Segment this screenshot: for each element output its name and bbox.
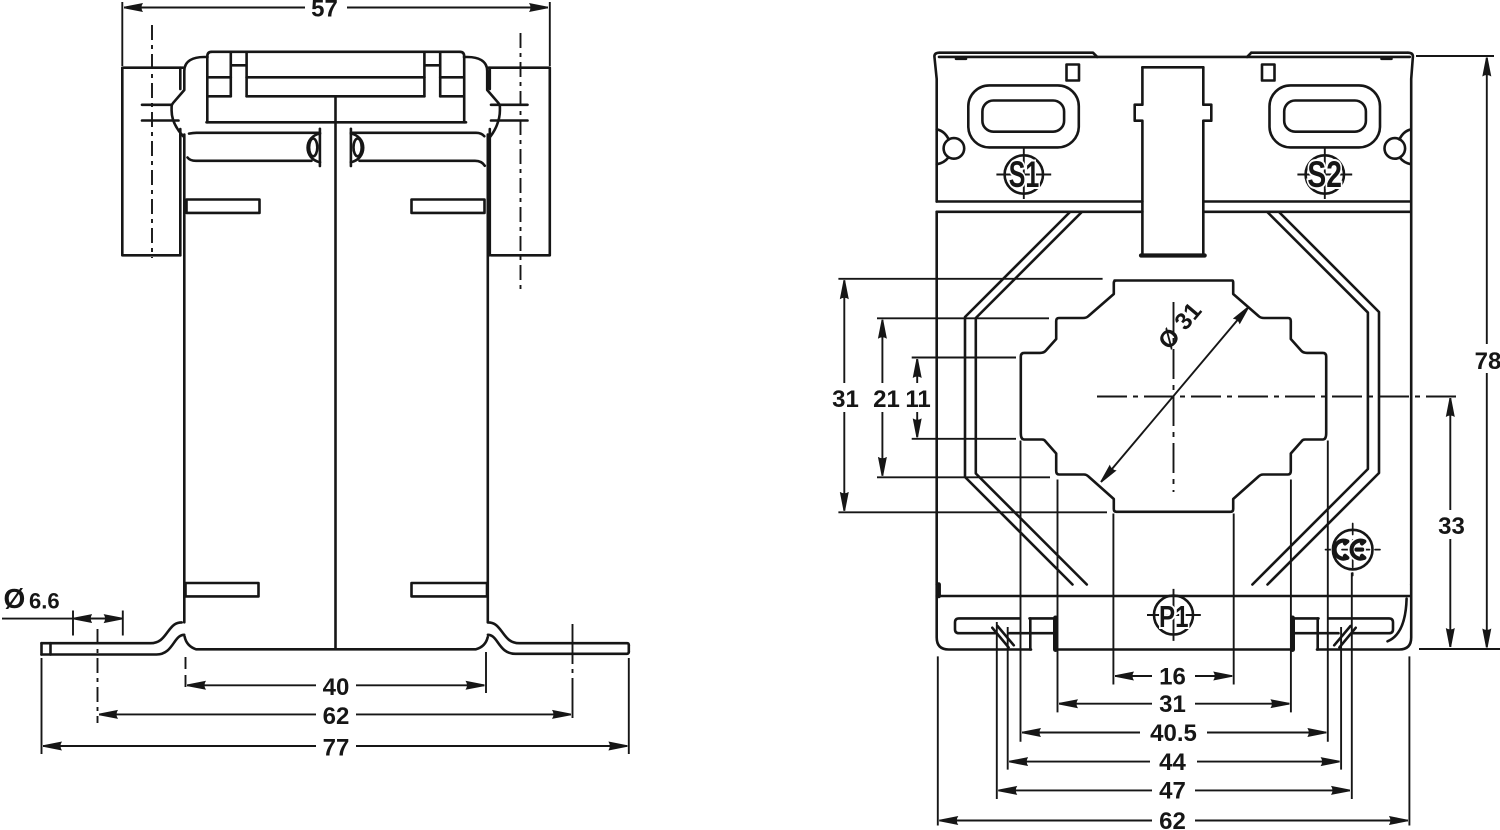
svg-text:78: 78 bbox=[1475, 348, 1500, 375]
svg-text:P1: P1 bbox=[1159, 599, 1189, 634]
svg-text:33: 33 bbox=[1438, 513, 1465, 540]
svg-text:62: 62 bbox=[323, 703, 350, 730]
svg-text:31: 31 bbox=[1159, 691, 1186, 718]
svg-text:Ø: Ø bbox=[4, 583, 26, 614]
svg-text:44: 44 bbox=[1159, 749, 1186, 776]
svg-text:16: 16 bbox=[1159, 664, 1186, 691]
svg-text:40.5: 40.5 bbox=[1150, 720, 1197, 747]
svg-text:S2: S2 bbox=[1307, 154, 1342, 195]
svg-text:57: 57 bbox=[311, 0, 338, 23]
svg-text:40: 40 bbox=[323, 674, 350, 701]
svg-text:31: 31 bbox=[832, 386, 859, 413]
svg-text:47: 47 bbox=[1159, 778, 1186, 805]
svg-text:11: 11 bbox=[905, 386, 930, 413]
svg-text:6.6: 6.6 bbox=[29, 589, 60, 614]
svg-text:62: 62 bbox=[1159, 808, 1186, 830]
svg-text:77: 77 bbox=[323, 735, 350, 762]
svg-text:21: 21 bbox=[873, 386, 900, 413]
svg-text:S1: S1 bbox=[1009, 154, 1040, 195]
svg-text:Ø 31: Ø 31 bbox=[1153, 298, 1207, 355]
